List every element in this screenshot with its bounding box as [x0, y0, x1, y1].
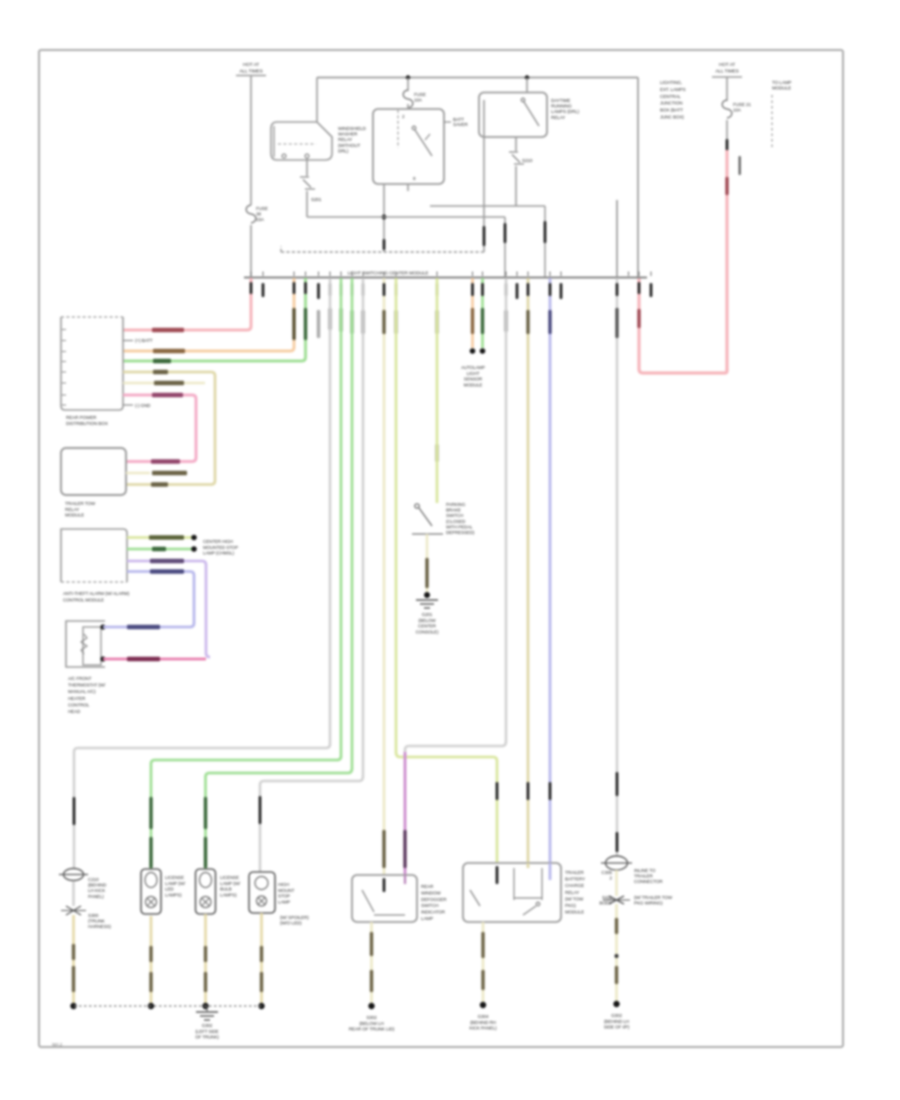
B7 internal bar — [374, 914, 405, 916]
wire GRN alarm — [127, 548, 193, 551]
wire label — [403, 830, 406, 868]
svg-text:WINDSHIELD: WINDSHIELD — [338, 126, 367, 131]
svg-text:WITH PEDAL: WITH PEDAL — [446, 524, 473, 529]
svg-text:MODULE: MODULE — [464, 382, 483, 387]
node B1/run junction — [382, 215, 387, 220]
wire label — [72, 944, 75, 960]
trailer relay box B8 — [463, 863, 561, 922]
pin — [293, 282, 296, 294]
wire GRN to dist box — [123, 278, 306, 361]
feed bar right — [712, 76, 742, 78]
ground symbol — [196, 1011, 218, 1013]
wire PNK B3 to B4 — [123, 395, 196, 462]
B8 contact — [536, 902, 540, 906]
wire label — [370, 932, 373, 956]
B3 pin tick — [62, 351, 66, 353]
svg-text:WA 2: WA 2 — [52, 1042, 63, 1047]
svg-text:RUNNING: RUNNING — [551, 104, 572, 109]
svg-text:ALL TIMES: ALL TIMES — [715, 68, 738, 74]
wire TAN to ground right — [615, 904, 618, 1001]
svg-text:BRAKE: BRAKE — [446, 508, 461, 513]
small node — [615, 954, 619, 958]
wire label — [149, 972, 152, 992]
svg-text:G304: G304 — [478, 1014, 489, 1019]
svg-text:S210: S210 — [522, 158, 533, 163]
svg-text:TRAILER TOW: TRAILER TOW — [65, 501, 96, 506]
wire label — [637, 309, 640, 328]
B8 blade 2 — [523, 906, 536, 915]
wire label — [154, 381, 184, 385]
svg-text:C305: C305 — [601, 870, 612, 875]
wire ORG to dist box — [123, 278, 294, 351]
A/C head resistor — [81, 634, 87, 654]
brake switch blade — [419, 508, 432, 526]
wire WHT elbow — [405, 741, 506, 875]
bus tick — [527, 272, 529, 277]
pin — [544, 221, 547, 243]
svg-text:JUNCTION: JUNCTION — [660, 101, 682, 106]
wire label — [152, 393, 183, 397]
wire label — [504, 310, 507, 332]
B8 blade 1 — [470, 890, 480, 906]
distribution box B3 outline — [61, 317, 123, 410]
wire ORG sensor stub — [471, 278, 474, 348]
svg-text:HEATER: HEATER — [68, 696, 86, 701]
wire label — [526, 310, 529, 334]
B2 switch blade — [524, 102, 539, 126]
wire bus to DRL relay — [526, 78, 528, 93]
pin — [481, 283, 484, 296]
node top bus / DRL tap — [525, 75, 529, 79]
svg-text:S302: S302 — [366, 1015, 377, 1020]
svg-text:PKG WIRING): PKG WIRING) — [634, 901, 663, 906]
svg-text:BODY: BODY — [599, 901, 612, 906]
wire label — [382, 310, 385, 334]
wire TAN to ground left — [72, 915, 75, 1003]
B3 pin tick — [62, 340, 66, 342]
svg-text:(BELOW: (BELOW — [418, 618, 436, 623]
svg-text:DEFOGGER: DEFOGGER — [421, 897, 447, 902]
svg-text:15A: 15A — [256, 217, 265, 222]
wire label — [435, 444, 438, 462]
svg-text:REAR POWER: REAR POWER — [66, 415, 97, 420]
relay M1 terminal — [305, 154, 309, 158]
wire label — [361, 310, 364, 334]
svg-text:FUSE: FUSE — [256, 206, 268, 211]
svg-text:10A: 10A — [733, 108, 742, 113]
relay M1 left bar — [273, 126, 275, 157]
svg-text:CONTROL: CONTROL — [68, 702, 90, 707]
B3 pin tick — [62, 382, 66, 384]
svg-text:HARNESS): HARNESS) — [88, 924, 112, 929]
wire B1 pin8 down — [383, 184, 385, 252]
svg-text:(BEHIND: (BEHIND — [88, 883, 107, 888]
wire splice to run — [306, 191, 308, 217]
connector C305 — [606, 856, 628, 870]
A/C head inner — [83, 627, 101, 665]
svg-text:TO LAMP: TO LAMP — [772, 80, 791, 85]
wire TAN drop to relay box — [527, 278, 530, 863]
svg-text:LAMPS (DRL): LAMPS (DRL) — [551, 109, 580, 114]
B7 switch blade — [362, 890, 374, 912]
B7 ppl terminal — [404, 875, 406, 884]
pin — [549, 283, 552, 296]
wire label — [149, 797, 152, 829]
svg-text:S201: S201 — [311, 197, 322, 202]
wire label — [153, 359, 171, 363]
wire label — [72, 966, 75, 992]
svg-text:MOUNT: MOUNT — [278, 888, 295, 893]
B3 pin tick — [62, 329, 66, 331]
svg-text:ANTI-THEFT ALARM (W/ ALARM): ANTI-THEFT ALARM (W/ ALARM) — [63, 591, 130, 596]
pin — [362, 283, 365, 296]
wire label — [204, 797, 207, 829]
svg-text:RELAY: RELAY — [551, 115, 565, 120]
wire GRN long drop 1 — [340, 278, 343, 757]
svg-text:BATTERY: BATTERY — [565, 877, 585, 882]
svg-text:LAMPS): LAMPS) — [165, 892, 182, 897]
svg-text:SAVER: SAVER — [453, 122, 469, 127]
bus tick — [383, 272, 385, 277]
wire label — [260, 972, 263, 992]
bus tick — [305, 272, 307, 277]
pin — [505, 283, 508, 296]
B1 internal dashed — [397, 110, 399, 148]
ground node 2 — [148, 1003, 154, 1009]
license lamp 2 — [196, 869, 216, 914]
pin stub — [516, 283, 519, 299]
wire TAN B3 to B4 — [123, 372, 215, 485]
wire top bus right drop — [637, 78, 639, 278]
svg-text:FUSE 21: FUSE 21 — [733, 102, 751, 107]
wire label — [435, 310, 438, 334]
wire label — [425, 558, 428, 588]
pin — [726, 139, 729, 151]
wire WHT elbow to lamp 3 — [260, 776, 363, 874]
wire run upper drop — [544, 206, 546, 277]
wire fuse to pin — [726, 120, 728, 140]
wire label — [204, 946, 207, 962]
A/C head outline — [66, 621, 105, 667]
wire label — [127, 625, 160, 629]
dashed reference wire — [771, 95, 773, 148]
pin stub — [650, 283, 653, 297]
bus tick — [638, 272, 640, 277]
wire label — [151, 459, 180, 463]
svg-text:LAMP (CHMSL): LAMP (CHMSL) — [203, 551, 235, 556]
svg-text:REAR OF TRUNK LID): REAR OF TRUNK LID) — [349, 1027, 395, 1032]
wire battery feed — [250, 76, 252, 206]
license lamp 1 — [141, 869, 161, 914]
wire top bus — [317, 77, 638, 79]
svg-text:PARKING: PARKING — [446, 502, 466, 507]
bus tick — [395, 272, 397, 277]
svg-text:(W/ SPOILER): (W/ SPOILER) — [280, 915, 309, 920]
wire label — [149, 946, 152, 962]
headlamp switch box B1 — [373, 109, 444, 184]
ground node 1 — [70, 1003, 76, 1009]
B3 stub 2 — [123, 340, 133, 342]
node sensor 2 — [480, 348, 486, 354]
wire label — [152, 547, 166, 551]
splice S300 — [66, 906, 81, 915]
wire LT GRN stub B4 — [126, 472, 150, 474]
bus tick — [318, 272, 320, 277]
svg-text:G302: G302 — [202, 1023, 213, 1028]
svg-text:STOP: STOP — [278, 894, 290, 899]
wire YEL-GRN elbow to relay box — [396, 752, 497, 863]
svg-text:S300: S300 — [88, 913, 99, 918]
wire label — [304, 308, 307, 340]
B1 switch contact — [412, 126, 416, 130]
pin — [549, 782, 552, 800]
svg-text:LAMP (W/: LAMP (W/ — [220, 881, 241, 886]
fuse F38 — [246, 205, 256, 223]
bus tick — [250, 272, 252, 277]
wire WHT elbow to lamp column — [74, 744, 330, 874]
svg-text:BOX (BATT: BOX (BATT — [660, 108, 683, 113]
wire TAN lamp3 to ground — [260, 913, 263, 1003]
svg-text:TRAILER: TRAILER — [565, 870, 584, 875]
brake switch base — [412, 533, 443, 535]
pin — [340, 283, 343, 296]
bus tick — [560, 272, 562, 277]
B8 internal bracket — [514, 868, 542, 900]
A/C head terminal 1 — [100, 624, 105, 629]
wire label — [260, 946, 263, 962]
pin — [383, 283, 386, 296]
wire RED elbow — [639, 278, 727, 373]
wire label — [292, 308, 295, 340]
svg-text:LIGHTING,: LIGHTING, — [660, 80, 682, 85]
svg-text:(-) GND: (-) GND — [135, 403, 151, 408]
B3 pin tick — [62, 404, 66, 406]
wire bus to fuse F10 — [407, 78, 409, 92]
wire label — [149, 535, 184, 539]
wire label — [394, 310, 397, 334]
svg-text:(BEHIND RH: (BEHIND RH — [470, 1020, 496, 1025]
pin — [383, 239, 386, 250]
bus tick — [482, 272, 484, 277]
svg-text:CONTROL MODULE: CONTROL MODULE — [63, 597, 104, 602]
wire PPL segment — [404, 752, 407, 875]
bus tick — [628, 272, 630, 277]
svg-text:G302: G302 — [611, 1013, 622, 1018]
wire LT GRN drop to defog switch — [383, 278, 386, 875]
wire label — [548, 310, 551, 334]
svg-text:RELAY: RELAY — [565, 890, 579, 895]
relay M1 terminal — [282, 154, 286, 158]
wire run lower — [307, 216, 505, 218]
B3 pin tick — [62, 371, 66, 373]
svg-text:CENTER HIGH: CENTER HIGH — [203, 539, 233, 544]
wire LT BLU drop to relay box — [549, 278, 552, 863]
svg-text:(BEHIND LH: (BEHIND LH — [604, 1019, 629, 1024]
splice S201 — [300, 177, 315, 189]
svg-text:DISTRIBUTION BOX: DISTRIBUTION BOX — [66, 421, 108, 426]
svg-text:(W/O LED): (W/O LED) — [280, 921, 302, 926]
pin — [616, 283, 619, 296]
wire WHT long drop 2 — [362, 278, 365, 777]
wire YEL-GRN drop — [395, 278, 398, 753]
bus tick — [505, 272, 507, 277]
svg-text:(+) BATT: (+) BATT — [135, 338, 153, 343]
pin above connector C305 — [616, 832, 619, 852]
pin — [483, 226, 486, 246]
wire PPL alarm to A/C head — [127, 561, 210, 657]
svg-text:(WITHOUT: (WITHOUT — [338, 143, 360, 148]
wire TAN lamp2 to ground — [204, 914, 207, 1003]
wire LT BLU inside B8 — [549, 863, 552, 880]
wire label — [152, 471, 187, 475]
pin — [504, 223, 507, 243]
B1 blade tick — [425, 134, 430, 140]
ground tie dashed — [74, 1005, 262, 1007]
svg-text:LAMP: LAMP — [278, 899, 290, 904]
svg-text:(W/ TRAILER TOW: (W/ TRAILER TOW — [634, 895, 673, 900]
svg-text:SIDE OF I/P): SIDE OF I/P) — [604, 1025, 630, 1030]
wire GRN sensor stub — [481, 278, 484, 348]
svg-text:CONSOLE): CONSOLE) — [416, 629, 439, 634]
wire label — [725, 177, 728, 195]
node sensor 1 — [470, 348, 476, 354]
ground node 7 — [613, 1001, 619, 1007]
ground node 6 — [480, 1002, 486, 1008]
B2 contact — [521, 98, 525, 102]
svg-text:LICENSE: LICENSE — [165, 875, 184, 880]
wire label — [204, 972, 207, 992]
svg-text:FUSE: FUSE — [414, 92, 426, 97]
svg-text:(CLOSED: (CLOSED — [446, 519, 466, 524]
wire label — [153, 349, 185, 353]
svg-text:CENTER: CENTER — [418, 624, 437, 629]
svg-text:SENSOR: SENSOR — [464, 377, 483, 382]
wire fuse to switch — [407, 104, 409, 109]
A/C head terminal 2 — [100, 656, 105, 661]
B5 dashed bottom — [61, 581, 127, 583]
high mount stop lamp — [249, 872, 275, 913]
white wire label — [317, 310, 320, 338]
connector label C2014 — [739, 156, 741, 175]
fuse — [403, 90, 413, 108]
svg-text:(W/ TOW: (W/ TOW — [565, 896, 584, 901]
wire label — [370, 970, 373, 992]
wire label — [150, 569, 184, 573]
svg-text:S411: S411 — [602, 895, 613, 900]
pin red drop — [638, 282, 641, 294]
svg-text:MODULE: MODULE — [565, 910, 584, 915]
wire label — [615, 308, 618, 338]
bus tick — [293, 272, 295, 277]
pin inside B8 — [496, 866, 499, 884]
wire B1 stub down — [407, 184, 409, 191]
bus tick — [616, 272, 618, 277]
pin — [351, 283, 354, 296]
relay M1 outline — [271, 122, 332, 160]
wire label — [152, 328, 184, 332]
svg-text:ALL TIMES: ALL TIMES — [239, 68, 262, 74]
svg-text:MOUNTED STOP: MOUNTED STOP — [203, 545, 238, 550]
svg-text:WINDOW: WINDOW — [421, 890, 441, 895]
wire to ground B8 — [482, 922, 485, 1002]
pin — [73, 797, 76, 825]
svg-text:MODULE: MODULE — [65, 513, 84, 518]
pin — [259, 796, 262, 824]
svg-text:(TRUNK: (TRUNK — [88, 919, 106, 924]
wire gray stub upper — [616, 200, 618, 277]
svg-text:SWITCH: SWITCH — [421, 903, 439, 908]
wire label — [127, 657, 160, 661]
wire WHT drop to defog — [505, 278, 508, 742]
defog switch box B7 — [352, 875, 417, 922]
ground symbol — [416, 599, 438, 601]
wire RED to dist box — [123, 278, 251, 330]
svg-text:TRAILER: TRAILER — [634, 874, 653, 879]
bus tick — [436, 272, 438, 277]
pin — [395, 283, 398, 296]
svg-text:OF TRUNK): OF TRUNK) — [195, 1035, 219, 1040]
pin on WHT right drop — [616, 772, 619, 796]
wire fuse to module — [250, 225, 252, 277]
wire label — [153, 370, 168, 374]
svg-text:WASHER: WASHER — [338, 132, 358, 137]
svg-text:LAMP: LAMP — [421, 916, 433, 921]
svg-text:RELAY: RELAY — [65, 507, 79, 512]
svg-text:REAR: REAR — [421, 884, 434, 889]
wire label — [350, 310, 353, 334]
svg-text:HOT AT: HOT AT — [243, 62, 259, 68]
ground stub — [206, 1006, 208, 1011]
pin — [527, 283, 530, 296]
pin stub — [560, 283, 563, 299]
wire WHT drop right — [616, 278, 619, 858]
bus tick — [262, 272, 264, 277]
ground node 3 — [202, 1003, 208, 1009]
brake switch contact — [415, 504, 419, 508]
svg-text:PANEL): PANEL) — [88, 894, 104, 899]
wire label — [481, 932, 484, 958]
pin — [304, 282, 307, 294]
B1 right stub — [444, 121, 451, 123]
svg-text:BULB: BULB — [220, 887, 232, 892]
bus tick — [340, 272, 342, 277]
svg-text:10A: 10A — [414, 97, 423, 102]
B3 pin tick — [62, 361, 66, 363]
wire label — [615, 918, 618, 934]
wire GRN elbow to lamp 1 — [151, 756, 341, 870]
pin — [496, 782, 499, 800]
wire WHT long drop 1 — [329, 278, 332, 745]
svg-text:PKG): PKG) — [565, 903, 576, 908]
ground node 5 — [368, 1003, 374, 1009]
wire GRN long drop 2 — [351, 278, 354, 769]
wire B2 right terminal down — [515, 137, 517, 151]
bus tick — [351, 272, 353, 277]
wire LT BLU alarm to A/C head — [127, 572, 194, 628]
svg-text:MODULE: MODULE — [772, 86, 791, 91]
wire run upper — [430, 205, 545, 207]
svg-text:LAMP (W/: LAMP (W/ — [165, 881, 186, 886]
wire to ground G201 — [426, 534, 429, 592]
bus tick — [549, 272, 551, 277]
bus tick — [362, 272, 364, 277]
pin — [250, 282, 253, 294]
svg-text:CHARGE: CHARGE — [565, 883, 584, 888]
node alarm 2 — [191, 546, 197, 552]
svg-text:38: 38 — [256, 212, 261, 217]
wire label — [150, 559, 184, 563]
svg-text:HEAD: HEAD — [68, 709, 81, 714]
